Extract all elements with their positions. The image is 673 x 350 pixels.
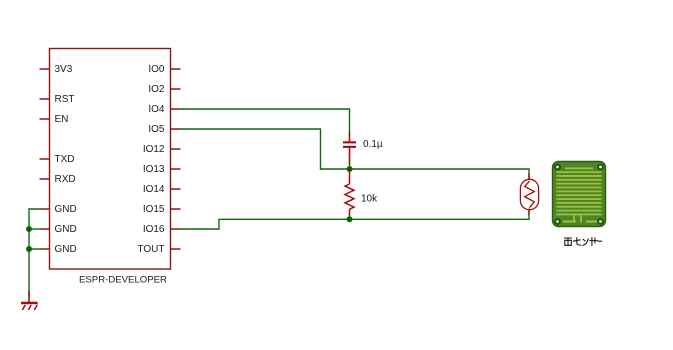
svg-text:EN: EN: [55, 114, 69, 125]
svg-text:IO13: IO13: [143, 164, 165, 175]
svg-text:IO4: IO4: [148, 104, 165, 115]
wire GND2 stub: [29, 228, 40, 230]
svg-text:IO5: IO5: [148, 124, 165, 135]
PCB mounting holes: [554, 164, 604, 225]
svg-text:IO2: IO2: [148, 84, 165, 95]
svg-text:TXD: TXD: [55, 154, 75, 165]
capacitor C1 bottom lead: [349, 148, 351, 164]
rain sensor module PCB image: [553, 162, 606, 227]
pin RST: [40, 98, 50, 100]
pin TOUT: [171, 248, 181, 250]
pin 3V3: [40, 68, 50, 70]
pin IO0: [171, 68, 181, 70]
svg-text:IO0: IO0: [148, 64, 165, 75]
node GND2 junction: [26, 226, 32, 232]
pin IO16: [171, 228, 181, 230]
pin IO13: [171, 168, 181, 170]
pin GND1: [40, 208, 50, 210]
svg-text:RXD: RXD: [55, 174, 76, 185]
pin TXD: [40, 158, 50, 160]
ground symbol: [21, 291, 38, 310]
rain sensor variable-resistor symbol: [528, 174, 530, 180]
wire GND pins to ground: [29, 209, 40, 297]
svg-text:IO14: IO14: [143, 184, 165, 195]
svg-text:RST: RST: [55, 94, 75, 105]
wire IO5 down and across to sensor top: [181, 129, 530, 180]
capacitor C1 top lead: [349, 133, 351, 141]
svg-text:ESPR-DEVELOPER: ESPR-DEVELOPER: [79, 274, 167, 285]
svg-text:0.1µ: 0.1µ: [363, 139, 383, 150]
pin IO14: [171, 188, 181, 190]
pin IO12: [171, 148, 181, 150]
resistor R1 leads and zigzag: [349, 169, 351, 184]
node GND3 junction: [26, 246, 32, 252]
svg-text:IO12: IO12: [143, 144, 165, 155]
wire GND3 stub: [29, 248, 40, 250]
wire IO4 to capacitor top: [181, 109, 350, 134]
pin IO2: [171, 88, 181, 90]
svg-text:GND: GND: [55, 204, 77, 215]
wire capacitor bottom to node A: [349, 163, 351, 169]
node B junction: [347, 216, 353, 222]
sensor label (rain sensor katakana): [565, 238, 602, 246]
pin GND3: [40, 248, 50, 250]
pin GND2: [40, 228, 50, 230]
svg-text:IO15: IO15: [143, 204, 165, 215]
PCB serpentine traces: [557, 168, 602, 222]
svg-text:10k: 10k: [361, 194, 378, 205]
svg-text:GND: GND: [55, 224, 77, 235]
pin EN: [40, 118, 50, 120]
pin RXD: [40, 178, 50, 180]
pin IO5: [171, 128, 181, 130]
capacitor C1 plates: [343, 141, 356, 143]
wire IO16 with jog to sensor bottom: [181, 209, 530, 230]
node A junction: [347, 166, 353, 172]
svg-text:IO16: IO16: [143, 224, 165, 235]
svg-text:3V3: 3V3: [55, 64, 73, 75]
pin IO4: [171, 108, 181, 110]
pin IO15: [171, 208, 181, 210]
wire resistor bottom to node B: [349, 215, 351, 219]
IC U1 ESPR-DEVELOPER body: [50, 49, 171, 270]
svg-text:GND: GND: [55, 244, 77, 255]
svg-text:TOUT: TOUT: [137, 244, 164, 255]
